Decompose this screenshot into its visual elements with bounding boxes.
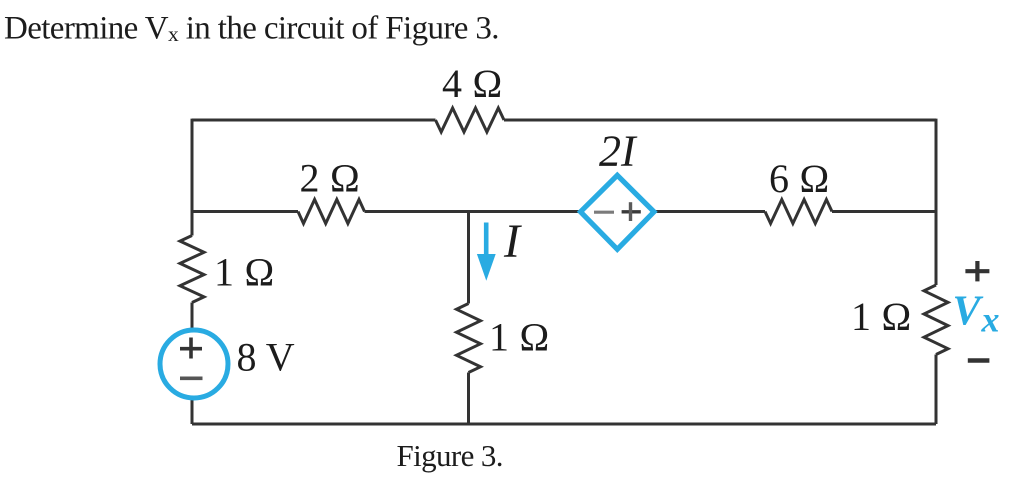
current arrow I <box>477 223 496 281</box>
wire middle branch top <box>467 212 470 304</box>
svg-text:6 Ω: 6 Ω <box>769 156 830 201</box>
wire left between 1ohm and source <box>191 303 194 331</box>
svg-text:1 Ω: 1 Ω <box>851 294 912 339</box>
wire middle between 2ohm and diamond <box>365 210 582 213</box>
wire middle between diamond and 6ohm <box>653 210 765 213</box>
svg-text:Determine Vx in the circuit of: Determine Vx in the circuit of Figure 3. <box>4 10 499 46</box>
wire left below source <box>191 397 194 424</box>
voltage source 8V circle <box>160 330 228 398</box>
minus sign inside diamond <box>594 211 614 214</box>
svg-text:4 Ω: 4 Ω <box>442 61 503 106</box>
svg-text:1 Ω: 1 Ω <box>489 315 550 360</box>
svg-text:1 Ω: 1 Ω <box>214 250 275 295</box>
minus sign inside 8V source <box>180 376 203 380</box>
svg-text:2I: 2I <box>599 127 638 176</box>
wire top left segment <box>192 119 436 122</box>
resistor R 2ohm zigzag <box>298 200 365 224</box>
wire middle left segment <box>192 210 298 213</box>
plus sign Vx polarity <box>965 261 989 281</box>
dependent source 2I diamond <box>581 175 655 249</box>
svg-text:8 V: 8 V <box>237 335 295 380</box>
resistor R 1ohm right zigzag <box>924 285 948 355</box>
resistor R 6ohm zigzag <box>765 200 832 224</box>
wire right bottom vertical <box>935 355 938 425</box>
svg-text:2 Ω: 2 Ω <box>300 156 361 201</box>
wire middle right segment <box>832 210 936 213</box>
resistor R 1ohm middle zigzag <box>457 304 481 373</box>
wire middle branch bottom <box>467 373 470 425</box>
minus sign Vx polarity <box>968 358 990 363</box>
plus sign inside 8V source <box>180 338 202 359</box>
wire left top vertical <box>191 119 194 236</box>
resistor R 4ohm zigzag <box>436 108 505 132</box>
wire top right segment <box>504 119 936 122</box>
resistor R 1ohm left zigzag <box>180 236 204 303</box>
plus sign inside diamond <box>622 202 641 221</box>
svg-text:Figure 3.: Figure 3. <box>397 438 503 473</box>
wire right top vertical <box>935 119 938 285</box>
svg-text:Vx: Vx <box>953 289 1000 340</box>
wire bottom <box>192 423 936 426</box>
svg-text:I: I <box>503 215 522 268</box>
